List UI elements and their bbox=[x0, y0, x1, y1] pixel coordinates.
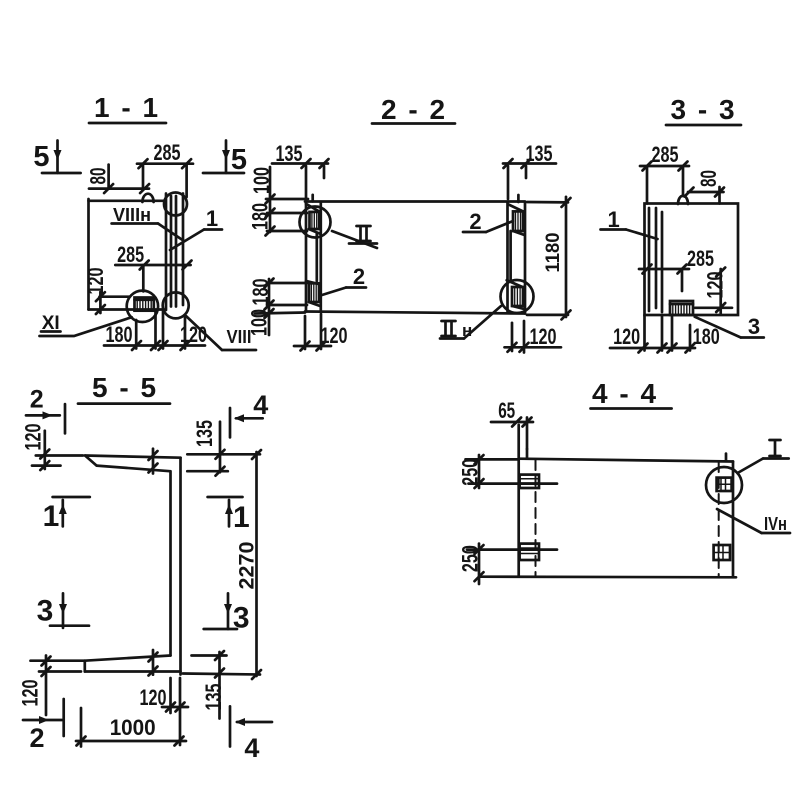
rebar bar 1 (wall) bbox=[166, 194, 183, 311]
dimension 285 top bbox=[640, 142, 689, 204]
section mark 3 left bbox=[37, 593, 89, 628]
svg-text:4 - 4: 4 - 4 bbox=[592, 378, 658, 409]
section mark 2 top bbox=[26, 386, 65, 434]
panel outline 4-4 bbox=[481, 459, 737, 578]
dimension 135 top-right bbox=[187, 420, 228, 476]
dimension 135 top-right bbox=[503, 141, 556, 199]
hidden edge right (dashed) bbox=[718, 462, 720, 577]
dimension 285 top bbox=[137, 140, 193, 197]
section mark 4 top bbox=[230, 390, 268, 437]
detail circle I bbox=[706, 467, 742, 503]
dimension 1000 bottom bbox=[76, 708, 186, 747]
section title 4-4 bbox=[591, 378, 672, 409]
label VIIIн bbox=[112, 205, 184, 241]
svg-text:5: 5 bbox=[33, 141, 49, 173]
svg-text:IVн: IVн bbox=[764, 514, 787, 534]
svg-text:1: 1 bbox=[43, 500, 60, 533]
dimension 80 bbox=[86, 165, 150, 194]
section mark 1 right bbox=[208, 497, 250, 534]
detail circle IIн bbox=[501, 280, 534, 313]
svg-text:5: 5 bbox=[231, 144, 247, 176]
dimension 120 bottom-right bbox=[505, 321, 562, 353]
section mark 5 right bbox=[203, 141, 247, 177]
svg-text:120: 120 bbox=[703, 272, 728, 299]
dimension 2270 right bbox=[183, 450, 261, 679]
bar stub top-left bbox=[526, 449, 529, 459]
dimension 120 bottom-left bbox=[294, 314, 348, 351]
right flange strip bbox=[507, 195, 525, 314]
section mark 5 left bbox=[33, 141, 80, 174]
dimension 120 bottom-left bbox=[18, 656, 85, 716]
stud 2 (top-right, hatched) bbox=[513, 211, 523, 231]
dimension 135 bottom-right bbox=[192, 651, 227, 719]
svg-text:VIIIн: VIIIн bbox=[113, 205, 151, 225]
label 1 bbox=[170, 206, 222, 250]
left flange strip bbox=[306, 195, 321, 312]
svg-text:3 - 3: 3 - 3 bbox=[670, 94, 736, 125]
section mark 1 left bbox=[43, 497, 90, 533]
stud II (top-left, hatched) bbox=[310, 212, 320, 229]
svg-text:180: 180 bbox=[106, 322, 133, 347]
svg-text:120: 120 bbox=[530, 324, 557, 349]
dimension 80 bbox=[685, 170, 725, 204]
svg-text:120: 120 bbox=[83, 268, 108, 295]
svg-text:285: 285 bbox=[687, 246, 714, 271]
svg-text:3: 3 bbox=[37, 595, 54, 628]
svg-text:1: 1 bbox=[233, 501, 250, 534]
svg-text:2: 2 bbox=[30, 386, 44, 414]
stud top-left (hatched) bbox=[520, 475, 539, 488]
label VIII bbox=[186, 316, 256, 350]
svg-text:5 - 5: 5 - 5 bbox=[92, 372, 158, 403]
dimension 250 upper-left bbox=[458, 455, 558, 488]
detail circle VIII bbox=[163, 292, 189, 318]
label IVн bbox=[717, 509, 790, 534]
label II bbox=[332, 226, 377, 248]
hidden edge left (dashed) bbox=[535, 460, 537, 577]
label 2 (right) bbox=[463, 209, 513, 234]
stud 3 (hatched) bbox=[670, 301, 693, 315]
label 2 (left) bbox=[322, 264, 366, 295]
label XI bbox=[40, 313, 132, 336]
svg-text:1 - 1: 1 - 1 bbox=[94, 92, 160, 123]
dimension 120 right bbox=[695, 268, 732, 315]
svg-text:2: 2 bbox=[469, 209, 481, 234]
bottom dimension chain 180 / 120 bbox=[104, 311, 207, 350]
lifting hook bbox=[678, 196, 688, 204]
rebar bars 1 (wall) bbox=[649, 208, 662, 312]
svg-text:120: 120 bbox=[613, 324, 640, 349]
svg-text:285: 285 bbox=[652, 142, 679, 167]
svg-text:80: 80 bbox=[86, 168, 111, 185]
section mark 3 right bbox=[204, 593, 250, 634]
label I bbox=[738, 440, 789, 473]
dimension 120 bottom-center (web) bbox=[140, 678, 189, 745]
section mark 4 bottom bbox=[230, 706, 272, 763]
svg-text:80: 80 bbox=[696, 170, 721, 187]
label 3 bbox=[695, 314, 764, 339]
svg-text:180: 180 bbox=[693, 324, 720, 349]
dimension chain 100/180 upper-left bbox=[248, 167, 309, 236]
svg-text:4: 4 bbox=[244, 733, 259, 763]
dimension 1180 right bbox=[527, 197, 571, 320]
stud I (top-right) bbox=[717, 478, 732, 491]
section title 2-2 bbox=[372, 94, 455, 125]
dimension 285 middle bbox=[639, 246, 714, 291]
svg-text:135: 135 bbox=[192, 420, 217, 447]
stud 2 (lower-left, hatched) bbox=[309, 283, 319, 302]
stud XI (hatched) bbox=[135, 298, 154, 311]
channel profile outline bbox=[85, 456, 181, 675]
section title 5-5 bbox=[78, 372, 170, 404]
svg-text:2: 2 bbox=[29, 723, 44, 753]
detail circle top (VIIIн) bbox=[164, 193, 187, 216]
lifting hook bbox=[142, 194, 153, 202]
svg-text:1000: 1000 bbox=[110, 715, 156, 740]
panel outline 3-3 bbox=[645, 204, 739, 316]
dimension 120 left bbox=[83, 268, 129, 315]
svg-text:2: 2 bbox=[353, 264, 365, 289]
cut tick on bottom flange bbox=[149, 650, 158, 676]
section title 3-3 bbox=[666, 94, 741, 125]
label 1 bbox=[601, 207, 658, 239]
dimension 285 inner bbox=[115, 242, 191, 291]
svg-text:120: 120 bbox=[18, 680, 43, 707]
svg-text:120: 120 bbox=[21, 424, 46, 451]
svg-text:285: 285 bbox=[117, 242, 144, 267]
svg-text:3: 3 bbox=[748, 314, 760, 339]
svg-text:1: 1 bbox=[206, 206, 218, 231]
detail circle II bbox=[300, 207, 331, 238]
stud bottom-left (hatched) bbox=[520, 544, 539, 560]
svg-text:2270: 2270 bbox=[236, 542, 259, 590]
dimension 250 lower-left bbox=[458, 544, 558, 584]
stud IIн (bottom-right, hatched) bbox=[512, 287, 523, 306]
section mark 2 bottom bbox=[23, 699, 64, 753]
svg-text:1180: 1180 bbox=[543, 233, 564, 273]
dimension 120 top-left bbox=[21, 424, 84, 471]
svg-text:4: 4 bbox=[253, 390, 268, 420]
svg-text:65: 65 bbox=[498, 398, 515, 423]
cut tick on top flange bbox=[149, 449, 158, 474]
panel outline 2-2 bbox=[305, 202, 525, 314]
svg-text:2 - 2: 2 - 2 bbox=[381, 94, 447, 125]
dimension 65 bbox=[491, 398, 533, 458]
section title 1-1 bbox=[89, 92, 166, 123]
panel outline 1-1 bbox=[89, 199, 166, 310]
svg-text:135: 135 bbox=[201, 684, 226, 711]
bottom dimension chain 120 / 180 bbox=[610, 315, 720, 353]
detail circle XI bbox=[127, 291, 158, 322]
dimension chain 180/100 lower-left bbox=[247, 279, 308, 337]
label IIн bbox=[440, 306, 501, 340]
stud bottom-right bbox=[714, 545, 730, 560]
dimension 135 top-left bbox=[272, 141, 329, 199]
bar stub top-right bbox=[725, 454, 728, 461]
svg-text:285: 285 bbox=[154, 140, 181, 165]
